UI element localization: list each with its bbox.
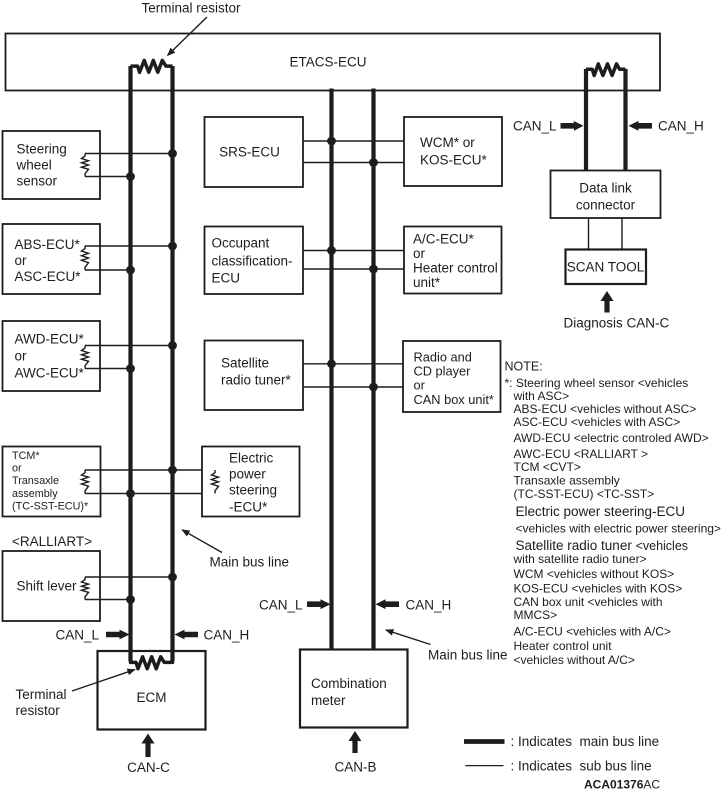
svg-text:Steering: Steering — [17, 141, 67, 156]
arrow CAN_H (left bus) — [175, 630, 199, 640]
wire satellite to radio (top) — [303, 363, 404, 365]
wire left main bus CAN_L line — [128, 66, 132, 661]
ECU box ABS-ECU or ASC-ECU — [3, 224, 101, 294]
svg-text:ETACS-ECU: ETACS-ECU — [289, 55, 366, 70]
arrow CAN_L (middle bus) — [307, 599, 331, 609]
ECU box ETACS-ECU — [6, 34, 661, 91]
svg-text:ASC-ECU*: ASC-ECU* — [15, 269, 82, 284]
svg-text:CAN_L: CAN_L — [259, 597, 303, 612]
svg-text:Terminal resistor: Terminal resistor — [141, 1, 241, 16]
node junction dot — [126, 364, 135, 373]
svg-text:TCM*: TCM* — [12, 450, 40, 462]
legend main bus line sample — [464, 739, 505, 744]
arrow CAN_H (diagnosis bus) — [629, 121, 653, 131]
svg-text:NOTE:: NOTE: — [505, 359, 543, 373]
svg-text:ECM: ECM — [137, 690, 167, 705]
note text block — [505, 359, 721, 667]
wire left main bus CAN_H line — [170, 66, 174, 661]
svg-text:*: Steering wheel sensor <vehi: *: Steering wheel sensor <vehicles — [505, 376, 689, 390]
ECU box SRS-ECU — [205, 117, 304, 187]
svg-text:steering: steering — [229, 483, 277, 498]
svg-text:Main bus line: Main bus line — [428, 648, 508, 663]
arrow to terminal resistor R2 — [72, 670, 135, 692]
arrow CAN_H (middle bus) — [376, 599, 400, 609]
arrow CAN_L (left bus) — [106, 630, 130, 640]
svg-text:KOS-ECU*: KOS-ECU* — [420, 153, 488, 168]
svg-text:CAN_H: CAN_H — [406, 597, 452, 612]
svg-text:Main bus line: Main bus line — [210, 555, 290, 570]
svg-text:A/C-ECU*: A/C-ECU* — [413, 232, 475, 247]
svg-text:SRS-ECU: SRS-ECU — [219, 145, 280, 160]
connector box Data link connector — [551, 171, 661, 219]
svg-text:-ECU*: -ECU* — [229, 500, 268, 515]
svg-text:CAN-B: CAN-B — [334, 760, 376, 775]
svg-text:Heater control: Heater control — [413, 261, 498, 276]
resistor in ABS-ECU — [82, 246, 89, 270]
svg-text:with satellite radio tuner>: with satellite radio tuner> — [513, 552, 647, 566]
wire middle main bus CAN_H line — [371, 89, 375, 650]
node junction dot — [327, 137, 336, 146]
svg-text:CAN_L: CAN_L — [55, 627, 99, 642]
node junction dot — [126, 266, 135, 275]
arrow to terminal resistor R1 — [168, 17, 208, 56]
svg-text:Satellite radio tuner <vehicle: Satellite radio tuner <vehicles — [516, 538, 689, 553]
ECU box Shift lever — [3, 551, 101, 621]
svg-text:ACA01376AC: ACA01376AC — [584, 778, 660, 791]
svg-text:WCM* or: WCM* or — [420, 135, 475, 150]
ECM box — [98, 651, 206, 730]
svg-text:KOS-ECU <vehicles with KOS>: KOS-ECU <vehicles with KOS> — [514, 581, 683, 595]
svg-text:assembly: assembly — [12, 488, 58, 500]
node junction dot — [168, 573, 177, 582]
box SCAN TOOL — [566, 250, 647, 285]
svg-text:AWC-ECU <RALLIART >: AWC-ECU <RALLIART > — [514, 447, 648, 461]
svg-text:<RALLIART>: <RALLIART> — [12, 534, 92, 549]
wire satellite to radio (bottom) — [303, 386, 404, 388]
wire ABS-ECU to bus (bottom) — [85, 269, 131, 271]
wire occupant to A/C (top) — [303, 250, 404, 252]
wire right bus CAN_H line — [623, 69, 627, 171]
node junction dot — [168, 149, 177, 158]
wire TCM to EPS (top) — [85, 469, 215, 471]
svg-text:CAN-C: CAN-C — [127, 760, 170, 775]
wire SRS-ECU to WCM (top) — [303, 140, 404, 142]
wire occupant to A/C (bottom) — [303, 268, 404, 270]
wire AWD-ECU to bus (top) — [85, 345, 173, 347]
wire steering sensor to bus (bottom) — [85, 176, 131, 178]
svg-text:or: or — [15, 253, 28, 268]
svg-text:Occupant: Occupant — [212, 236, 270, 251]
svg-text:SCAN TOOL: SCAN TOOL — [567, 260, 645, 275]
svg-text:Satellite: Satellite — [221, 356, 269, 371]
svg-text:unit*: unit* — [413, 275, 441, 290]
svg-text:AWD-ECU <electric controled AW: AWD-ECU <electric controled AWD> — [514, 431, 709, 445]
wire AWD-ECU to bus (bottom) — [85, 368, 131, 370]
node junction dot — [327, 246, 336, 255]
meter box Combination meter — [300, 650, 408, 728]
node junction dot — [369, 158, 378, 167]
svg-text:Electric power steering-ECU: Electric power steering-ECU — [516, 504, 686, 519]
wire TCM to EPS (bottom) — [85, 493, 215, 495]
svg-text:Shift lever: Shift lever — [17, 579, 78, 594]
ECU box Radio and CD player or CAN box unit — [403, 341, 501, 412]
svg-text:MMCS>: MMCS> — [514, 608, 558, 622]
arrow CAN-C (up, below ECM) — [142, 734, 155, 758]
svg-text:: Indicates main bus line: : Indicates main bus line — [511, 734, 660, 749]
svg-text:or: or — [413, 246, 426, 261]
svg-text:AWD-ECU*: AWD-ECU* — [15, 332, 85, 347]
svg-text:radio tuner*: radio tuner* — [221, 373, 292, 388]
svg-text:Terminal: Terminal — [16, 687, 67, 702]
wire middle main bus CAN_L line — [329, 89, 333, 650]
svg-text:ECU: ECU — [212, 271, 241, 286]
svg-text:Transaxle assembly: Transaxle assembly — [514, 474, 620, 488]
svg-text:Electric: Electric — [229, 451, 274, 466]
svg-text:ABS-ECU*: ABS-ECU* — [15, 237, 81, 252]
svg-text:TCM <CVT>: TCM <CVT> — [514, 460, 581, 474]
svg-text:connector: connector — [576, 198, 636, 213]
wire data link connector to scan tool (right) — [621, 218, 623, 250]
node junction dot — [369, 383, 378, 392]
svg-text:Data link: Data link — [579, 181, 632, 196]
resistor in shift lever — [82, 577, 89, 600]
node junction dot — [168, 341, 177, 350]
resistor in steering wheel sensor — [82, 154, 89, 177]
wire steering sensor to bus (top) — [85, 153, 173, 155]
terminal resistor R1 (top of CAN-C bus, in ETACS-ECU) — [131, 60, 173, 72]
node junction dot — [126, 595, 135, 604]
svg-text:A/C-ECU <vehicles with A/C>: A/C-ECU <vehicles with A/C> — [514, 624, 671, 638]
arrow to left main bus — [182, 530, 222, 553]
svg-text:wheel: wheel — [16, 157, 52, 172]
svg-text:classification-: classification- — [212, 254, 293, 269]
node junction dot — [126, 172, 135, 181]
svg-text:Transaxle: Transaxle — [12, 475, 59, 487]
ECU box Electric power steering-ECU — [202, 447, 300, 517]
node junction dot — [168, 466, 177, 475]
svg-text:or: or — [414, 378, 426, 393]
node junction dot — [369, 265, 378, 274]
svg-text:sensor: sensor — [17, 173, 58, 188]
svg-text:(TC-SST-ECU) <TC-SST>: (TC-SST-ECU) <TC-SST> — [514, 487, 655, 501]
svg-text:or: or — [12, 463, 22, 475]
svg-text:ASC-ECU <vehicles with ASC>: ASC-ECU <vehicles with ASC> — [514, 415, 681, 429]
svg-text:CAN_H: CAN_H — [204, 627, 250, 642]
arrow diagnosis CAN-C (up) — [601, 291, 614, 313]
svg-text:<vehicles without A/C>: <vehicles without A/C> — [514, 653, 635, 667]
svg-text:CAN box unit <vehicles with: CAN box unit <vehicles with — [514, 595, 663, 609]
arrow CAN_L (diagnosis bus) — [561, 121, 584, 131]
wire ABS-ECU to bus (top) — [85, 245, 173, 247]
wire data link connector to scan tool (left) — [588, 218, 590, 250]
terminal resistor R2 (bottom of CAN-C bus, in ECM) — [131, 653, 173, 669]
arrow to middle main bus — [386, 630, 431, 645]
svg-text:<vehicles with electric power: <vehicles with electric power steering> — [516, 521, 721, 535]
wire SRS-ECU to WCM (bottom) — [303, 162, 404, 164]
svg-text:WCM <vehicles without KOS>: WCM <vehicles without KOS> — [514, 567, 675, 581]
svg-text:resistor: resistor — [16, 703, 61, 718]
ECU box AWD-ECU or AWC-ECU — [3, 321, 101, 391]
ECU box TCM or Transaxle assembly — [3, 447, 101, 517]
svg-text:CAN_H: CAN_H — [658, 119, 704, 134]
ECU box Steering wheel sensor — [3, 131, 101, 199]
svg-text:CAN box unit*: CAN box unit* — [414, 392, 494, 407]
svg-text:: Indicates sub bus line: : Indicates sub bus line — [511, 758, 652, 773]
svg-text:CAN_L: CAN_L — [513, 119, 557, 134]
resistor in AWD-ECU — [82, 346, 89, 369]
node junction dot — [126, 489, 135, 498]
node junction dot — [327, 359, 336, 368]
node junction dot — [168, 242, 177, 251]
svg-text:power: power — [229, 467, 266, 482]
ECU box WCM or KOS-ECU — [404, 117, 502, 186]
svg-text:Radio and: Radio and — [414, 350, 472, 365]
svg-text:meter: meter — [311, 693, 346, 708]
svg-text:Heater control unit: Heater control unit — [514, 639, 613, 653]
wire shift lever to bus (top) — [85, 576, 173, 578]
svg-text:AWC-ECU*: AWC-ECU* — [15, 366, 85, 381]
wire shift lever to bus (bottom) — [85, 599, 131, 601]
wire right bus CAN_L line — [584, 69, 588, 171]
arrow CAN-B (up, below combination meter) — [349, 731, 362, 753]
resistor in EPS-ECU — [212, 470, 219, 494]
ECU box Occupant classification-ECU — [205, 227, 304, 295]
terminal resistor R3 (diagnosis bus, in ETACS-ECU) — [586, 64, 626, 76]
ECU box A/C-ECU or Heater control unit — [404, 227, 502, 294]
svg-text:(TC-SST-ECU)*: (TC-SST-ECU)* — [12, 501, 89, 513]
svg-text:Combination: Combination — [311, 676, 387, 691]
ECU box Satellite radio tuner — [205, 341, 304, 411]
svg-text:Diagnosis CAN-C: Diagnosis CAN-C — [564, 316, 670, 331]
svg-text:or: or — [15, 349, 28, 364]
svg-text:CD player: CD player — [414, 364, 472, 379]
svg-text:with ASC>: with ASC> — [513, 389, 570, 403]
resistor in TCM — [82, 470, 89, 494]
legend sub bus line sample — [465, 765, 503, 767]
